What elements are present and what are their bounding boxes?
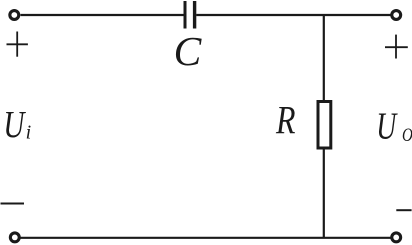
- svg-text:O: O: [402, 125, 412, 146]
- plus sign right: [385, 35, 408, 59]
- svg-text:C: C: [174, 28, 203, 74]
- minus sign left: [1, 203, 25, 205]
- capacitor C right plate: [193, 1, 196, 29]
- svg-text:R: R: [275, 97, 295, 142]
- terminal bottom-right: [392, 233, 401, 242]
- capacitor C left plate: [184, 1, 187, 29]
- terminal top-left: [10, 11, 19, 20]
- wire vertical lower (resistor to bottom): [323, 147, 325, 238]
- terminal bottom-left: [10, 233, 19, 242]
- svg-text:U: U: [376, 106, 398, 148]
- svg-text:U: U: [3, 104, 26, 146]
- wire bottom: [21, 237, 391, 239]
- wire top-left segment: [21, 14, 185, 16]
- wire top-right segment: [196, 14, 390, 16]
- terminal top-right: [392, 11, 401, 20]
- plus sign left: [7, 32, 28, 57]
- wire vertical upper (node to resistor): [323, 15, 325, 102]
- resistor R body: [318, 102, 331, 149]
- minus sign right: [396, 209, 411, 211]
- svg-text:i: i: [26, 122, 32, 144]
